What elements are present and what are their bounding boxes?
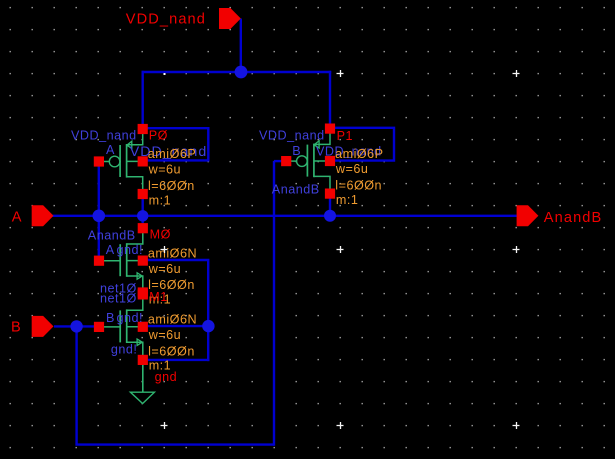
label pin AnandB [544, 210, 603, 226]
pin square P0 bulk [138, 156, 148, 166]
junction VDD rail [235, 66, 248, 79]
pin square M0 bulk [138, 256, 148, 266]
param l=600n at T143_294 [148, 344, 195, 358]
wire node B riser to P1 gate [273, 161, 275, 446]
pin square P1 source [325, 124, 335, 134]
net label B at P1 gate [292, 144, 301, 158]
pin square P1 bulk [325, 156, 335, 166]
net label AnandB left [88, 229, 136, 243]
instance label P1 [337, 129, 353, 143]
label pin A [12, 210, 23, 226]
instance label P0 [149, 128, 168, 142]
wire VDD rail [142, 71, 332, 73]
pin A [32, 205, 54, 226]
svg-text:A: A [12, 210, 23, 226]
wire M1 source row [143, 359, 210, 361]
net label AnandB at P1 drain [272, 182, 320, 196]
wire VDD to P0 source [141, 71, 143, 129]
svg-text:amiØ6P: amiØ6P [335, 147, 384, 161]
svg-text:w=6u: w=6u [148, 328, 181, 342]
pin square M1 drain [138, 289, 148, 299]
wire output row A-pin to AnandB pin [52, 215, 516, 217]
pin square P0 source [138, 124, 148, 134]
param m:1 at T143_129 [149, 193, 172, 207]
pin square M1 bulk [138, 322, 148, 332]
svg-text:amiØ6N: amiØ6N [148, 246, 197, 260]
pin square P1 drain [325, 189, 335, 199]
net label VDD_nand P0 bulk [130, 144, 207, 160]
svg-text:MØ: MØ [150, 228, 171, 242]
pin square M0 source [138, 287, 148, 297]
param l=600n at T143_228 [148, 278, 195, 292]
svg-text:P1: P1 [337, 129, 353, 143]
svg-text:AnandB: AnandB [272, 182, 320, 196]
wire gnd net right edge [207, 326, 209, 361]
pin VDD_nand [219, 8, 241, 29]
svg-text:w=6u: w=6u [148, 262, 181, 276]
wire VDD pin drop [240, 19, 242, 73]
pin B [32, 316, 54, 337]
junction node B [70, 320, 82, 332]
svg-text:gnd!: gnd! [117, 243, 144, 257]
svg-text:A: A [106, 243, 115, 257]
pin square M1 gate [94, 322, 104, 332]
svg-text:net1Ø: net1Ø [100, 291, 137, 305]
nmos M1 symbol [99, 294, 143, 359]
svg-text:PØ: PØ [149, 128, 168, 142]
svg-text:M1: M1 [149, 290, 168, 304]
param l=600n at T143_129 [148, 179, 195, 193]
junction output at M0 drain [137, 210, 148, 221]
param m:1 at T143_294 [149, 359, 172, 373]
net label gnd! M1 bulk [117, 311, 144, 325]
junction output at P1 drain [324, 210, 336, 222]
ground symbol [130, 392, 154, 403]
param w=6u at T143_129 [148, 163, 181, 177]
net label VDD_nand at P0 source [71, 128, 137, 142]
model label amiØ6P at T143_129 [148, 147, 197, 161]
wire VDD to P1 source [329, 71, 331, 129]
wire node B bottom run [75, 443, 274, 445]
model label amiØ6N at T143_228 [148, 246, 197, 260]
svg-text:w=6u: w=6u [335, 162, 368, 176]
wire B stub to P1 gate [274, 160, 287, 162]
nmos M0 symbol [99, 228, 143, 293]
junction node A on output row [93, 210, 106, 223]
wire node A vertical P0 gate to M0 gate [98, 162, 100, 261]
wire M0 bulk loop [143, 260, 208, 326]
pin square P0 gate [94, 156, 104, 166]
pin square P1 gate [281, 156, 291, 166]
pin square P0 drain [138, 189, 148, 199]
svg-text:AnandB: AnandB [544, 210, 603, 226]
param w=6u at T330_129 [335, 162, 368, 176]
svg-text:l=6ØØn: l=6ØØn [148, 179, 195, 193]
wire P0 bulk loop [143, 128, 209, 160]
net label VDD_nand at P1 source [259, 128, 325, 142]
net label VDD_nand P1 bulk [316, 145, 382, 159]
model label amiØ6P at T330_129 [335, 147, 384, 161]
wire M1 bulk row [143, 325, 208, 327]
wire B pin to M1 gate [54, 325, 99, 327]
svg-text:l=6ØØn: l=6ØØn [335, 179, 382, 193]
svg-text:B: B [292, 144, 301, 158]
net label net10 upper [100, 282, 137, 296]
label pin B [11, 320, 22, 336]
net label B at M1 gate [106, 311, 115, 325]
instance label M1 [149, 290, 168, 304]
net label gnd! M1 source [111, 343, 138, 357]
instance label M0 [150, 228, 171, 242]
wire P0 drain to M0 drain [141, 194, 143, 228]
svg-text:B: B [11, 320, 22, 336]
param m:1 at T330_129 [336, 193, 359, 207]
gnd stem [142, 363, 144, 392]
svg-text:AnandB: AnandB [88, 229, 136, 243]
net label A at P0 gate [106, 143, 115, 157]
pin AnandB output [517, 205, 539, 226]
svg-text:w=6u: w=6u [148, 163, 181, 177]
param l=600n at T330_129 [335, 179, 382, 193]
wire P1 bulk loop [330, 128, 394, 161]
wire node B vertical [75, 326, 77, 444]
net label A at M0 gate [106, 243, 115, 257]
pin square M1 source [138, 355, 148, 365]
pin square M0 drain [138, 223, 148, 233]
net label gnd red [155, 370, 178, 384]
pin square M0 gate [94, 256, 104, 266]
svg-text:amiØ6P: amiØ6P [148, 147, 197, 161]
net label net10 lower [100, 291, 137, 305]
param w=6u at T143_294 [148, 328, 181, 342]
svg-text:gnd!: gnd! [117, 311, 144, 325]
svg-text:VDD_nand: VDD_nand [71, 128, 137, 142]
pmos P0 symbol [103, 129, 143, 194]
wire P1 drain to output [329, 194, 331, 216]
net label gnd! M0 bulk [117, 243, 144, 257]
svg-text:l=6ØØn: l=6ØØn [148, 344, 195, 358]
label pin VDD_nand [126, 11, 206, 27]
param m:1 at T143_228 [149, 293, 172, 307]
param w=6u at T143_228 [148, 262, 181, 276]
svg-text:VDD_nand: VDD_nand [259, 128, 325, 142]
svg-text:amiØ6N: amiØ6N [148, 313, 197, 327]
svg-text:gnd: gnd [155, 370, 178, 384]
svg-text:VDD_nand: VDD_nand [126, 11, 206, 27]
svg-text:B: B [106, 311, 115, 325]
svg-text:gnd!: gnd! [111, 343, 138, 357]
svg-text:m:1: m:1 [336, 193, 359, 207]
pmos P1 symbol [290, 129, 330, 194]
junction gnd net corner [202, 320, 214, 332]
model label amiØ6N at T143_294 [148, 313, 197, 327]
svg-text:A: A [106, 143, 115, 157]
svg-text:m:1: m:1 [149, 193, 172, 207]
major grid cross markers [161, 70, 520, 429]
